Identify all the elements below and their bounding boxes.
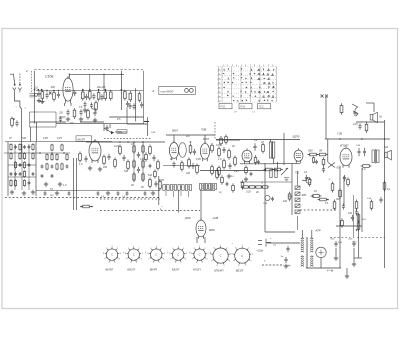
svg-text:××: ××: [273, 243, 277, 247]
speaker Gr2: [385, 150, 392, 160]
svg-text:7: 7: [233, 261, 234, 263]
svg-text:9: 9: [150, 248, 151, 250]
wire stub: [31, 71, 33, 92]
svg-text:2: 2: [139, 248, 140, 250]
wire: [8, 176, 36, 178]
X mark: [49, 92, 52, 95]
wire: [36, 122, 38, 142]
ground: [10, 190, 14, 194]
tube V8 tuning indicator 6E1P: [196, 218, 206, 239]
junction: [34, 89, 36, 91]
svg-text:АТР: АТР: [315, 229, 321, 233]
resistor: [218, 147, 221, 158]
junction: [119, 141, 121, 143]
resistor: [365, 122, 368, 133]
capacitor: [315, 160, 318, 164]
selenium rectifier stack ABC-80: [295, 171, 300, 230]
phono jack: [306, 178, 311, 183]
ground: [98, 167, 102, 171]
svg-text:7: 7: [148, 259, 149, 261]
capacitor C26: [45, 92, 48, 98]
capacitor C14: [92, 93, 95, 99]
svg-text:120: 120: [348, 212, 353, 215]
capacitor: [126, 191, 129, 195]
chassis dashed line: [100, 210, 200, 212]
svg-text:7,0В: 7,0В: [337, 133, 342, 136]
capacitor: [152, 155, 155, 161]
wire: [103, 124, 105, 131]
resistor volume: [340, 103, 343, 114]
dashed wire: [104, 137, 152, 139]
capacitor: [343, 175, 346, 181]
capacitor: [305, 175, 308, 181]
junction: [255, 186, 257, 188]
speaker top lead: [373, 103, 375, 112]
ground: [58, 182, 62, 186]
resistor: [133, 172, 135, 182]
coil/resistor: [32, 143, 34, 151]
tone marks: [284, 178, 289, 181]
caption box: [159, 87, 196, 95]
cross wire: [328, 163, 335, 168]
svg-text:2: 2: [248, 248, 249, 250]
svg-text:8: 8: [125, 253, 126, 255]
coil/resistor: [23, 152, 25, 160]
resistor: [311, 195, 322, 198]
svg-text:4: 4: [250, 261, 251, 263]
capacitor C17: [90, 102, 93, 108]
wire upper bus: [166, 134, 215, 136]
capacitor: [222, 147, 225, 153]
capacitor: [128, 103, 131, 109]
FM block boundary bottom-right: [56, 71, 144, 124]
resistor: [223, 159, 226, 170]
junction: [339, 138, 341, 140]
svg-text:9: 9: [106, 248, 107, 250]
svg-text:4: 4: [119, 259, 120, 261]
resistor: [149, 145, 152, 156]
svg-text:4: 4: [141, 259, 142, 261]
svg-text:C: C: [155, 253, 157, 257]
svg-text:220: 220: [69, 122, 75, 125]
box below table 1: [219, 104, 232, 109]
tube V4 6K4P IF: [200, 141, 209, 161]
resistor: [317, 153, 328, 156]
tube socket 6К4П: [149, 247, 163, 261]
svg-text:6: 6: [153, 262, 154, 264]
ground: [284, 264, 288, 268]
capacitor: [363, 148, 366, 156]
wire: [358, 215, 360, 258]
wire loop to band: [30, 127, 32, 142]
resistor: [225, 135, 228, 145]
wire dashed: [214, 122, 216, 140]
tube top lead: [68, 74, 70, 78]
svg-text:ГСО: ГСО: [221, 106, 226, 109]
ground: [244, 177, 248, 181]
svg-text:8: 8: [191, 253, 192, 255]
capacitor: [355, 209, 358, 215]
wire: [301, 230, 303, 238]
svg-text:6: 6: [238, 265, 239, 267]
junction: [91, 206, 93, 208]
junction: [53, 90, 55, 92]
svg-text:9: 9: [194, 248, 195, 250]
resistor R: [81, 205, 92, 208]
capacitor: [51, 165, 54, 169]
capacitor: [351, 215, 354, 221]
resistor: [154, 169, 157, 178]
resistor R24: [11, 117, 14, 128]
resistor: [142, 144, 144, 154]
wire: [86, 141, 112, 143]
resistor: [254, 186, 262, 188]
capacitor: [28, 145, 31, 149]
resistor: [188, 158, 191, 169]
wire down: [277, 162, 279, 169]
svg-text:4: 4: [185, 259, 186, 261]
wire: [14, 144, 16, 190]
ground: [352, 262, 356, 266]
wire: [115, 131, 127, 133]
resistor R23: [87, 109, 90, 120]
resistor: [181, 161, 184, 172]
svg-text:6: 6: [109, 262, 110, 264]
capacitor: [10, 172, 13, 176]
wire: [353, 248, 355, 262]
wire band top bus: [5, 141, 112, 143]
junction: [38, 89, 40, 91]
wire: [147, 117, 149, 136]
resistor: [357, 221, 360, 232]
svg-text:3М: 3М: [319, 151, 322, 153]
wire: [216, 139, 240, 141]
tube V7 6P14P output: [340, 146, 352, 168]
svg-text:Л8: Л8: [218, 96, 220, 98]
wire: [109, 124, 111, 128]
capacitor: [193, 149, 196, 155]
svg-text:8: 8: [232, 254, 233, 256]
ground: [227, 174, 231, 178]
coil/resistor: [14, 179, 16, 187]
junction: [277, 170, 279, 172]
svg-text:4: 4: [163, 259, 164, 261]
capacitor: [132, 103, 135, 109]
capacitor: [28, 181, 31, 185]
wire: [366, 102, 374, 104]
svg-text:АВС: АВС: [301, 194, 307, 197]
capacitor 20mf: [334, 241, 337, 247]
junction: [51, 152, 53, 154]
resistor: [145, 152, 148, 161]
coil/resistor: [23, 179, 25, 187]
svg-text:2: 2: [183, 248, 184, 250]
svg-text:3: 3: [207, 253, 208, 255]
ground: [83, 108, 87, 112]
potentiometer arrow: [281, 168, 288, 175]
ground: [93, 118, 97, 122]
trimmer arrow 2: [353, 111, 358, 116]
resistor: [383, 181, 386, 192]
capacitor C15: [100, 94, 103, 100]
svg-text:Л8: Л8: [218, 92, 220, 94]
wire stub: [188, 191, 190, 197]
junction: [46, 90, 48, 92]
resistor: [322, 157, 325, 166]
svg-text:6Х2П: 6Х2П: [193, 267, 201, 271]
antenna W2 lead: [19, 74, 21, 85]
primary winding: [301, 238, 303, 252]
capacitor C16: [83, 101, 86, 107]
svg-text:100: 100: [186, 172, 191, 175]
svg-text:ПЧ1: ПЧ1: [241, 106, 246, 109]
wire: [200, 191, 202, 221]
resistor: [133, 144, 135, 154]
capacitor: [191, 163, 194, 169]
junction: [190, 141, 192, 143]
svg-text:2: 2: [161, 248, 162, 250]
capacitor: [28, 163, 31, 167]
heater circle: [35, 93, 38, 96]
resistor R12: [41, 90, 44, 101]
ground: [55, 191, 59, 195]
tube V3 6I1P converter: [169, 141, 178, 161]
wire: [353, 195, 355, 238]
resistor R17: [110, 90, 113, 101]
capacitor: [117, 191, 120, 195]
resistor: [261, 186, 269, 188]
svg-text:220: 220: [102, 166, 108, 169]
wire FM inner bus: [69, 73, 124, 75]
tube pin: [196, 237, 198, 243]
wire: [325, 97, 327, 139]
IF transformer L7: [163, 184, 169, 191]
wire: [127, 123, 148, 125]
wire: [320, 258, 322, 268]
wire: [265, 231, 295, 233]
svg-text:1: 1: [133, 246, 134, 248]
capacitor C20: [66, 109, 69, 115]
capacitor: [228, 163, 231, 169]
capacitor: [172, 161, 175, 167]
coil/resistor: [51, 144, 53, 152]
svg-text:5: 5: [181, 262, 182, 264]
svg-text:1 П: 1 П: [234, 112, 238, 114]
svg-text:5: 5: [202, 262, 203, 264]
tube pin: [204, 237, 206, 243]
capacitor: [271, 197, 274, 201]
capacitor: [353, 110, 356, 116]
caption circles: [185, 89, 189, 93]
resistor R19: [124, 90, 127, 101]
wire: [142, 142, 144, 183]
wire AM input: [4, 152, 70, 154]
capacitor 20mf: [352, 241, 355, 247]
ground: [31, 190, 35, 194]
resistor: [159, 180, 162, 191]
wire: [8, 164, 36, 166]
wire: [120, 71, 122, 110]
resistor: [264, 168, 275, 171]
junction: [105, 89, 107, 91]
svg-text:ГСС: ГСС: [259, 106, 264, 109]
resistor: [149, 178, 152, 189]
capacitor: [154, 181, 157, 187]
resistor: [361, 165, 372, 168]
junction: [121, 74, 122, 75]
svg-text:6Н3П: 6Н3П: [78, 137, 86, 141]
svg-text:7: 7: [211, 260, 212, 262]
junction: [248, 186, 250, 188]
resistor: [157, 160, 160, 171]
wire: [89, 74, 91, 89]
svg-text:6К4П: 6К4П: [203, 138, 209, 141]
wire stub: [165, 191, 167, 196]
dash mark: [144, 121, 149, 123]
wire band bottom bus: [36, 190, 160, 192]
svg-text:C: C: [199, 253, 201, 257]
svg-text:2К: 2К: [231, 145, 235, 148]
loop antenna frame: [30, 112, 57, 127]
coil/resistor: [10, 152, 12, 160]
junction: [69, 74, 70, 75]
capacitor: [122, 155, 125, 161]
wire: [343, 176, 345, 205]
svg-text:тип 6Н3П: тип 6Н3П: [161, 89, 174, 93]
svg-text:0,25: 0,25: [353, 124, 358, 126]
wire: [283, 133, 285, 165]
svg-text:НЧВ: НЧВ: [213, 216, 219, 220]
svg-text:6Е5С: 6Е5С: [209, 229, 215, 232]
capacitor: [44, 191, 47, 195]
antenna symbol Y1: [13, 88, 16, 93]
capacitor C11: [37, 91, 40, 97]
capacitor: [14, 172, 17, 176]
svg-text:7: 7: [192, 259, 193, 261]
wire vertical bus 1: [339, 166, 341, 269]
wire: [274, 162, 300, 164]
capacitor: [68, 191, 71, 195]
switch mark X: [325, 95, 328, 98]
coil/resistor: [23, 170, 25, 178]
wire: [200, 170, 265, 172]
svg-text:4: 4: [229, 260, 230, 262]
wire down: [158, 176, 160, 205]
IF transformer L14: [269, 141, 275, 159]
speaker Gr1: [370, 112, 377, 122]
coil/resistor: [46, 153, 48, 161]
resistor: [347, 177, 350, 186]
coil/resistor: [56, 153, 58, 161]
capacitor: [51, 174, 54, 178]
svg-text:6П14П: 6П14П: [340, 143, 348, 147]
svg-text:1: 1: [156, 246, 157, 248]
capacitor: [358, 148, 361, 156]
resistor: [220, 136, 223, 146]
junction: [39, 152, 41, 154]
wire: [346, 268, 348, 274]
svg-text:1: 1: [242, 245, 243, 247]
X mark: [49, 92, 52, 95]
capacitor: [253, 143, 256, 150]
junction: [98, 89, 100, 91]
resistor: [218, 166, 221, 177]
resistor R16: [104, 90, 107, 101]
wire: [35, 142, 37, 196]
resistor: [341, 218, 344, 227]
svg-text:20,0: 20,0: [351, 242, 357, 244]
tube V1 6N3P FM unit: [63, 76, 73, 103]
svg-text:100: 100: [283, 200, 288, 203]
wire: [109, 116, 143, 118]
junction: [103, 74, 104, 75]
tube socket 6Н3П: [105, 247, 119, 261]
wire: [273, 158, 275, 163]
wire: [133, 142, 135, 183]
wire: [302, 180, 306, 182]
coil/resistor: [61, 163, 63, 171]
IF transformer L8: [170, 184, 176, 191]
small label box: [117, 130, 127, 134]
wire stub: [180, 191, 182, 196]
wire: [354, 257, 362, 259]
wire: [384, 120, 386, 170]
ground: [22, 191, 26, 195]
wire: [59, 116, 66, 118]
resistor: [142, 172, 144, 182]
ground: [334, 256, 338, 260]
svg-text:1: 1: [178, 246, 179, 248]
svg-text:C: C: [177, 253, 179, 257]
svg-text:1: 1: [199, 246, 200, 248]
capacitor: [84, 156, 87, 162]
capacitor: [144, 191, 147, 195]
resistor: [103, 155, 106, 166]
svg-text:5: 5: [245, 265, 246, 267]
tube socket 6А2П: [171, 247, 185, 261]
wire: [204, 135, 206, 143]
coupling circle: [265, 195, 270, 200]
FM block boundary top: [34, 69, 143, 71]
svg-text:7: 7: [104, 259, 105, 261]
resistor: [262, 143, 265, 154]
svg-text:6: 6: [130, 262, 131, 264]
capacitor C13: [85, 94, 88, 100]
capacitor: [41, 174, 44, 178]
coil/resistor: [19, 152, 21, 160]
resistor: [189, 144, 192, 155]
coil/resistor: [46, 163, 48, 171]
svg-text:9: 9: [128, 248, 129, 250]
IF transformer L12: [205, 183, 211, 190]
legend dashes: [262, 264, 284, 266]
tube V6 6P14P driver: [294, 148, 303, 163]
wire: [327, 140, 329, 163]
trimmer arrow: [352, 104, 358, 110]
svg-text:Л3: Л3: [218, 70, 220, 72]
svg-text:6Н3П: 6Н3П: [106, 267, 115, 271]
svg-text:C: C: [133, 253, 135, 257]
box below table 3: [258, 104, 271, 109]
wire: [269, 139, 271, 142]
svg-text:2К: 2К: [255, 191, 259, 194]
capacitor C18: [126, 101, 129, 107]
svg-text:5: 5: [136, 262, 137, 264]
resistor: [241, 180, 244, 189]
capacitor: [97, 191, 100, 195]
wire: [336, 225, 362, 227]
junction: [13, 118, 15, 120]
